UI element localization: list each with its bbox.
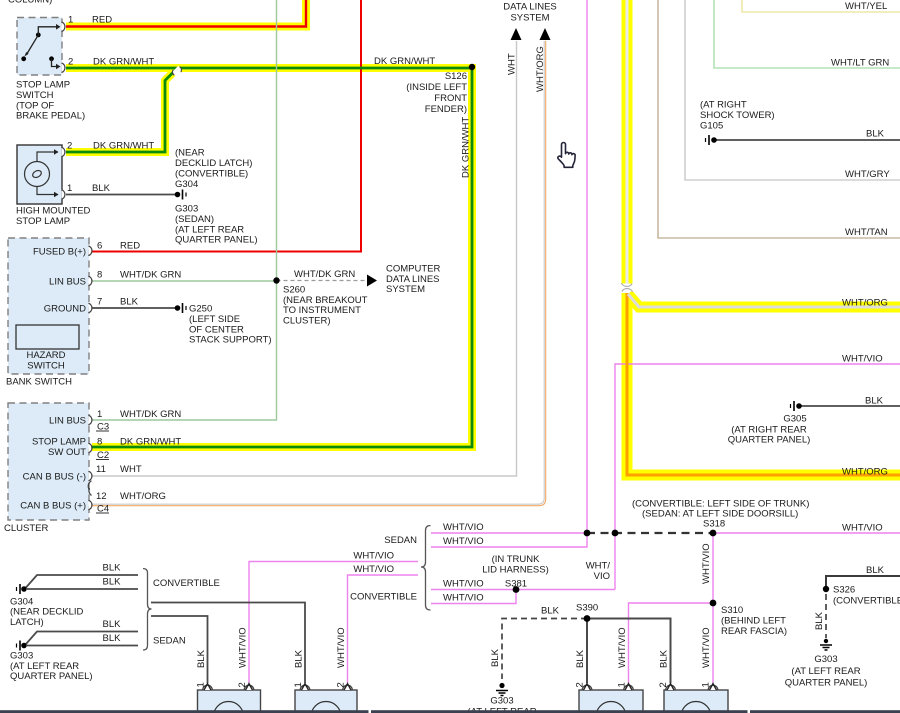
svg-text:FRONT: FRONT — [434, 93, 467, 104]
lamp box 4 — [664, 690, 728, 713]
svg-text:DK GRN/WHT: DK GRN/WHT — [374, 56, 435, 67]
C designation underlines — [96, 430, 109, 432]
chassis ground G303 center bottom — [496, 683, 508, 696]
wire highlight: DK GRN/WHT branch to high mounted stop lamp — [66, 69, 177, 153]
ground G303 near high mounted stop lamp — [175, 190, 186, 200]
svg-text:2: 2 — [237, 682, 248, 687]
wire WHT/VIO S310 down — [712, 603, 714, 683]
arrow up WHT data line — [511, 28, 522, 40]
wire WHT/VIO vertical to S318 group — [586, 0, 588, 533]
svg-text:(CONVERTIBLE): (CONVERTIBLE) — [175, 169, 248, 180]
svg-text:WHT/VIO: WHT/VIO — [353, 564, 394, 575]
wire BLK brace output to lamp1 — [151, 616, 208, 683]
svg-text:DK GRN/WHT: DK GRN/WHT — [93, 57, 154, 68]
wire dashed WHT/DK GRN to computer data lines — [277, 280, 368, 282]
svg-text:COLUMN): COLUMN) — [8, 0, 52, 6]
wire highlight: WHT/ORG vertical above connector — [622, 0, 633, 284]
svg-text:WHT/VIO: WHT/VIO — [701, 627, 712, 668]
splice dot S326 — [823, 586, 829, 592]
svg-text:G105: G105 — [700, 121, 723, 132]
svg-text:WHT/VIO: WHT/VIO — [353, 551, 394, 562]
svg-text:BLK: BLK — [659, 649, 670, 668]
svg-text:STOP LAMP: STOP LAMP — [16, 216, 70, 227]
mouse hand cursor — [558, 143, 575, 168]
svg-text:VIO: VIO — [594, 571, 610, 582]
svg-text:REAR FASCIA): REAR FASCIA) — [721, 626, 787, 637]
svg-text:DK GRN/WHT: DK GRN/WHT — [93, 141, 154, 152]
svg-text:(AT RIGHT: (AT RIGHT — [700, 100, 747, 111]
svg-text:SYSTEM: SYSTEM — [386, 284, 425, 295]
svg-text:STOP LAMP: STOP LAMP — [16, 80, 70, 91]
svg-text:BLK: BLK — [575, 649, 586, 668]
svg-text:LIN BUS: LIN BUS — [49, 416, 86, 427]
svg-text:CAN B BUS (+): CAN B BUS (+) — [20, 501, 86, 512]
lamp box 2 — [295, 690, 357, 713]
svg-text:RED: RED — [120, 241, 140, 252]
ground G303 bottom left — [17, 641, 27, 651]
wire BLK S390 right — [587, 619, 671, 684]
pin arc 8 cluster — [89, 443, 92, 453]
svg-text:WHT/GRY: WHT/GRY — [845, 169, 890, 180]
svg-text:WHT/VIO: WHT/VIO — [842, 523, 883, 534]
wire BLK G305 — [801, 405, 900, 407]
wire BLK brace output to lamp2 — [151, 603, 305, 684]
svg-text:BLK: BLK — [92, 183, 111, 194]
svg-text:RED: RED — [92, 15, 112, 26]
svg-text:S381: S381 — [505, 578, 527, 589]
wire WHT/YEL top right — [742, 0, 900, 12]
pin arc 1 lamp — [62, 190, 65, 200]
svg-text:(SEDAN): (SEDAN) — [175, 214, 214, 225]
svg-text:WHT/VIO: WHT/VIO — [443, 593, 484, 604]
svg-text:LID HARNESS): LID HARNESS) — [482, 564, 549, 575]
svg-text:BLK: BLK — [865, 395, 884, 406]
svg-text:WHT/VIO: WHT/VIO — [443, 522, 484, 533]
svg-text:1: 1 — [617, 682, 628, 687]
switch symbol inside stop lamp switch — [21, 24, 60, 69]
hazard switch inner rect — [16, 325, 79, 349]
wire WHT/DK GRN lin bus vertical + to cluster pin1 — [92, 0, 277, 420]
svg-text:BLK: BLK — [120, 297, 139, 308]
wire WHT/ORG middle branch core — [628, 294, 900, 307]
svg-text:CLUSTER: CLUSTER — [4, 523, 48, 534]
svg-text:SEDAN: SEDAN — [384, 535, 417, 546]
pin arc 1 stop lamp switch — [62, 22, 65, 32]
svg-text:BANK SWITCH: BANK SWITCH — [6, 377, 72, 388]
svg-text:(BEHIND LEFT: (BEHIND LEFT — [721, 615, 786, 626]
svg-text:1: 1 — [68, 15, 73, 26]
svg-text:WHT/VIO: WHT/VIO — [443, 578, 484, 589]
svg-text:FUSED B(+): FUSED B(+) — [33, 247, 86, 258]
wire WHT/ORG core above connector (white core) — [626, 0, 629, 284]
svg-text:BLK: BLK — [196, 649, 207, 668]
svg-text:GROUND: GROUND — [44, 303, 86, 314]
wire BLK S390 down — [586, 619, 588, 684]
svg-text:S326: S326 — [833, 584, 855, 595]
svg-text:STOP LAMP: STOP LAMP — [32, 437, 86, 448]
svg-text:BLK: BLK — [814, 611, 825, 630]
wire WHT can b bus (-) — [92, 41, 517, 476]
splice dot S126 — [469, 64, 475, 70]
wire WHT/VIO right of S318 — [713, 532, 900, 534]
pin arc 8 bank — [89, 276, 92, 286]
svg-text:(INSIDE LEFT: (INSIDE LEFT — [406, 82, 467, 93]
svg-text:WHT/DK GRN: WHT/DK GRN — [294, 269, 355, 280]
svg-text:WHT/DK GRN: WHT/DK GRN — [120, 409, 181, 420]
svg-text:SEDAN: SEDAN — [153, 636, 186, 647]
wire highlight: DK GRN/WHT main run pin2 to S126 to cluster — [66, 68, 472, 447]
svg-text:(CONVERTIBLE): (CONVERTIBLE) — [833, 596, 900, 607]
wire BLK G105 — [716, 139, 900, 141]
svg-text:G303: G303 — [175, 204, 198, 215]
lamp symbol — [25, 152, 59, 195]
svg-text:G250: G250 — [189, 304, 212, 315]
wire BLK bank switch ground to G250 — [92, 307, 175, 309]
svg-text:G304: G304 — [175, 179, 198, 190]
wire WHT/VIO right branch — [615, 364, 900, 533]
wire WHT/VIO S318 to S310 — [712, 533, 714, 603]
arrow up WHT/ORG data line — [540, 28, 551, 40]
svg-text:SWITCH: SWITCH — [27, 360, 65, 371]
svg-text:S390: S390 — [576, 602, 598, 613]
svg-text:QUARTER PANEL): QUARTER PANEL) — [10, 671, 93, 682]
wire WHT/TAN top right — [658, 0, 900, 238]
svg-text:WHT/VIO: WHT/VIO — [701, 543, 712, 584]
svg-text:8: 8 — [97, 270, 102, 281]
pin arc 6 bank — [89, 246, 92, 256]
svg-text:DK GRN/WHT: DK GRN/WHT — [120, 437, 181, 448]
wire RED fused B(+) bank switch pin 6 — [92, 0, 361, 252]
lamp box 1 — [198, 690, 261, 713]
svg-text:HIGH MOUNTED: HIGH MOUNTED — [16, 206, 91, 217]
svg-text:2: 2 — [68, 57, 73, 68]
wire BLK high mounted stop lamp to G303 — [66, 194, 175, 196]
splice dot S381 — [513, 586, 520, 593]
svg-text:SW OUT: SW OUT — [48, 447, 86, 458]
svg-text:BLK: BLK — [866, 129, 885, 140]
pin arc 12 cluster — [89, 500, 92, 510]
wire BLK G304 pair — [26, 575, 138, 588]
svg-text:WHT/ORG: WHT/ORG — [842, 467, 888, 478]
svg-text:WHT/ORG: WHT/ORG — [120, 491, 166, 502]
cluster box — [8, 403, 89, 520]
splice dot riser junction — [612, 530, 619, 537]
bottom dark bar segments — [0, 710, 369, 713]
svg-text:SYSTEM: SYSTEM — [510, 13, 549, 24]
splice dot sedan junction — [584, 530, 591, 537]
svg-text:12: 12 — [96, 491, 107, 502]
chassis ground below S326 — [820, 639, 832, 650]
wire WHT/DK GRN bank pin 8 — [92, 280, 277, 282]
splice dot S318 — [710, 530, 717, 537]
svg-text:WHT/ORG: WHT/ORG — [842, 298, 888, 309]
wire highlight: WHT/ORG middle branch to right edge — [628, 294, 900, 307]
svg-text:WHT/VIO: WHT/VIO — [336, 627, 347, 668]
inline connector on branch — [172, 66, 182, 76]
svg-text:BLK: BLK — [103, 577, 122, 588]
wire BLK G303 pair — [26, 632, 138, 645]
brace left for sedan/convertible split — [421, 526, 431, 611]
svg-text:(NEAR: (NEAR — [175, 148, 205, 159]
svg-text:DATA LINES: DATA LINES — [503, 2, 557, 13]
splice dot S260 — [273, 277, 279, 283]
pin arc 2 stop lamp switch — [62, 63, 65, 73]
svg-text:11: 11 — [96, 464, 106, 475]
svg-text:2: 2 — [336, 682, 347, 687]
stop lamp switch box — [17, 18, 62, 76]
brace right for G304/G303 grounds — [143, 569, 152, 651]
wire WHT/ORG can b bus (+) — [92, 41, 544, 504]
ground G105 — [706, 135, 717, 145]
svg-text:WHT/VIO: WHT/VIO — [238, 627, 249, 668]
svg-text:BLK: BLK — [103, 633, 122, 644]
svg-text:1: 1 — [701, 682, 712, 687]
svg-text:BLK: BLK — [490, 648, 501, 667]
svg-text:BLK: BLK — [866, 565, 885, 576]
svg-text:G305: G305 — [783, 413, 806, 424]
wire BLK dashed S326 to ground — [825, 594, 827, 638]
svg-text:LATCH): LATCH) — [10, 617, 44, 628]
svg-text:S310: S310 — [721, 605, 743, 616]
svg-text:FENDER): FENDER) — [425, 104, 467, 115]
svg-text:BRAKE PEDAL): BRAKE PEDAL) — [16, 111, 85, 122]
svg-text:CAN B BUS (-): CAN B BUS (-) — [23, 471, 86, 482]
pin arc 11 cluster — [89, 471, 92, 481]
svg-text:2: 2 — [575, 682, 586, 687]
svg-text:BLK: BLK — [294, 649, 305, 668]
svg-text:QUARTER PANEL): QUARTER PANEL) — [728, 435, 811, 446]
wire RED stop lamp switch pin 1 — [66, 0, 306, 27]
pin arc 2 lamp — [62, 147, 65, 157]
svg-text:7: 7 — [97, 297, 102, 308]
wire BLK dashed S390 left + down to G303 — [502, 619, 587, 680]
pin arc 7 bank — [89, 303, 92, 313]
svg-text:1: 1 — [293, 682, 304, 687]
svg-text:G303: G303 — [490, 696, 513, 707]
svg-text:S318: S318 — [703, 518, 725, 529]
svg-text:2: 2 — [658, 682, 669, 687]
svg-text:1: 1 — [97, 409, 102, 420]
wire highlight: RED circuit from stop lamp switch pin 1 — [66, 0, 306, 27]
ground G304 bottom left — [17, 584, 27, 594]
svg-text:SHOCK TOWER): SHOCK TOWER) — [700, 110, 775, 121]
svg-text:STACK SUPPORT): STACK SUPPORT) — [189, 335, 272, 346]
svg-text:DK GRN/WHT: DK GRN/WHT — [461, 117, 472, 178]
wire WHT/ORG core below connector (orange) — [627, 293, 900, 475]
svg-text:(AT LEFT REAR: (AT LEFT REAR — [791, 666, 860, 677]
svg-text:DECKLID LATCH): DECKLID LATCH) — [175, 158, 252, 169]
svg-text:WHT/DK GRN: WHT/DK GRN — [120, 270, 181, 281]
svg-text:WHT/LT GRN: WHT/LT GRN — [831, 58, 889, 69]
svg-text:CONVERTIBLE: CONVERTIBLE — [350, 592, 417, 603]
ground G305 — [791, 401, 802, 411]
svg-text:CONVERTIBLE: CONVERTIBLE — [153, 578, 220, 589]
wire WHT/LT GRN top right — [714, 0, 900, 68]
svg-text:LIN BUS: LIN BUS — [49, 276, 86, 287]
svg-text:BLK: BLK — [103, 619, 122, 630]
wire DK GRN/WHT main — [66, 68, 472, 447]
svg-text:WHT/YEL: WHT/YEL — [845, 1, 887, 12]
lamp pins: arcs and up arrows — [203, 685, 718, 690]
inline connector on WHT/ORG vertical — [620, 283, 634, 292]
wire WHT/VIO convertible pair to S381 — [431, 589, 615, 591]
wire WHT/VIO sedan pair — [431, 532, 587, 534]
svg-text:6: 6 — [97, 241, 102, 252]
wire WHT/VIO left inputs to braces — [249, 562, 418, 684]
wire WHT/GRY top right — [685, 0, 900, 180]
svg-text:(AT LEFT REAR: (AT LEFT REAR — [175, 224, 244, 235]
svg-text:CLUSTER): CLUSTER) — [283, 315, 331, 326]
svg-text:S126: S126 — [445, 71, 467, 82]
wire BLK S326 up right — [826, 576, 900, 589]
svg-text:BLK: BLK — [541, 606, 560, 617]
svg-text:WHT: WHT — [120, 464, 142, 475]
lamp box 3 — [579, 690, 643, 713]
svg-text:WHT: WHT — [507, 53, 518, 75]
wire WHT/VIO riser from S381 line to S318 dashed line — [614, 533, 616, 590]
svg-text:WHT/VIO: WHT/VIO — [617, 627, 628, 668]
high mounted stop lamp box — [17, 145, 62, 204]
svg-text:BLK: BLK — [103, 563, 122, 574]
wire DK GRN/WHT branch to lamp — [66, 69, 177, 153]
wire highlight: WHT/ORG vertical below connector and bottom branch — [627, 293, 900, 475]
svg-text:2: 2 — [67, 141, 72, 152]
bank switch box — [8, 238, 89, 374]
svg-text:QUARTER PANEL): QUARTER PANEL) — [785, 677, 868, 688]
splice dot S310 — [710, 600, 717, 607]
svg-text:G303: G303 — [814, 654, 837, 665]
wire dashed splice S318 — [587, 532, 713, 534]
svg-text:QUARTER PANEL): QUARTER PANEL) — [175, 235, 258, 246]
svg-text:WHT/VIO: WHT/VIO — [443, 536, 484, 547]
svg-text:WHT/VIO: WHT/VIO — [842, 354, 883, 365]
svg-text:WHT/TAN: WHT/TAN — [845, 227, 888, 238]
arrow right computer data lines — [367, 275, 377, 287]
svg-text:8: 8 — [97, 437, 102, 448]
wire WHT/VIO S310 to left lamp pin — [629, 603, 714, 683]
splice dot S390 — [584, 615, 591, 622]
svg-text:1: 1 — [196, 682, 207, 687]
svg-text:WHT/ORG: WHT/ORG — [535, 46, 546, 92]
ground G250 — [175, 303, 186, 313]
pin arc 1 cluster — [89, 415, 92, 425]
svg-text:1: 1 — [67, 183, 72, 194]
